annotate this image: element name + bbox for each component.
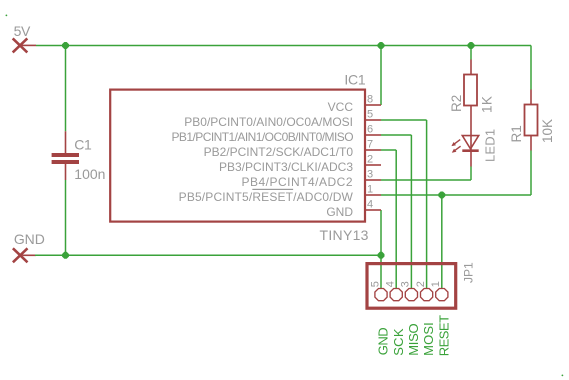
svg-text:SCK: SCK bbox=[391, 328, 406, 356]
svg-text:5: 5 bbox=[369, 281, 381, 287]
svg-text:MOSI: MOSI bbox=[421, 322, 436, 356]
svg-text:10K: 10K bbox=[540, 119, 555, 143]
svg-text:1: 1 bbox=[367, 184, 373, 196]
svg-text:PB5/PCINT5/RESET/ADC0/DW: PB5/PCINT5/RESET/ADC0/DW bbox=[179, 190, 354, 204]
svg-text:GND: GND bbox=[376, 328, 391, 356]
svg-text:JP1: JP1 bbox=[461, 262, 475, 283]
svg-text:2: 2 bbox=[415, 281, 427, 287]
svg-text:1: 1 bbox=[430, 281, 442, 287]
svg-text:PB1/PCINT1/AIN1/OC0B/INT0/MISO: PB1/PCINT1/AIN1/OC0B/INT0/MISO bbox=[171, 130, 353, 144]
svg-text:C1: C1 bbox=[74, 136, 92, 152]
svg-text:1K: 1K bbox=[479, 96, 494, 113]
svg-text:IC1: IC1 bbox=[344, 72, 366, 88]
svg-text:5: 5 bbox=[367, 109, 373, 121]
svg-text:5V: 5V bbox=[14, 23, 31, 39]
svg-text:GND: GND bbox=[326, 205, 353, 219]
svg-text:PB4/PCINT4/ADC2: PB4/PCINT4/ADC2 bbox=[241, 175, 353, 189]
svg-text:8: 8 bbox=[367, 94, 373, 106]
svg-text:PB0/PCINT0/AIN0/OC0A/MOSI: PB0/PCINT0/AIN0/OC0A/MOSI bbox=[184, 115, 353, 129]
svg-text:3: 3 bbox=[367, 169, 373, 181]
svg-text:RESET: RESET bbox=[436, 315, 451, 356]
svg-text:GND: GND bbox=[14, 231, 45, 247]
svg-text:PB2/PCINT2/SCK/ADC1/T0: PB2/PCINT2/SCK/ADC1/T0 bbox=[204, 145, 354, 159]
svg-text:LED1: LED1 bbox=[482, 129, 497, 162]
svg-text:TINY13: TINY13 bbox=[320, 227, 369, 243]
svg-text:MISO: MISO bbox=[406, 323, 421, 355]
svg-text:R2: R2 bbox=[449, 95, 464, 112]
svg-text:3: 3 bbox=[400, 281, 412, 287]
svg-text:2: 2 bbox=[367, 154, 373, 166]
svg-text:7: 7 bbox=[367, 139, 373, 151]
svg-text:VCC: VCC bbox=[328, 100, 354, 114]
svg-text:4: 4 bbox=[367, 199, 373, 211]
svg-text:R1: R1 bbox=[509, 125, 524, 142]
svg-text:PB3/PCINT3/CLKI/ADC3: PB3/PCINT3/CLKI/ADC3 bbox=[219, 160, 353, 174]
svg-text:100n: 100n bbox=[74, 166, 105, 182]
svg-text:4: 4 bbox=[385, 281, 397, 287]
svg-text:6: 6 bbox=[367, 124, 373, 136]
